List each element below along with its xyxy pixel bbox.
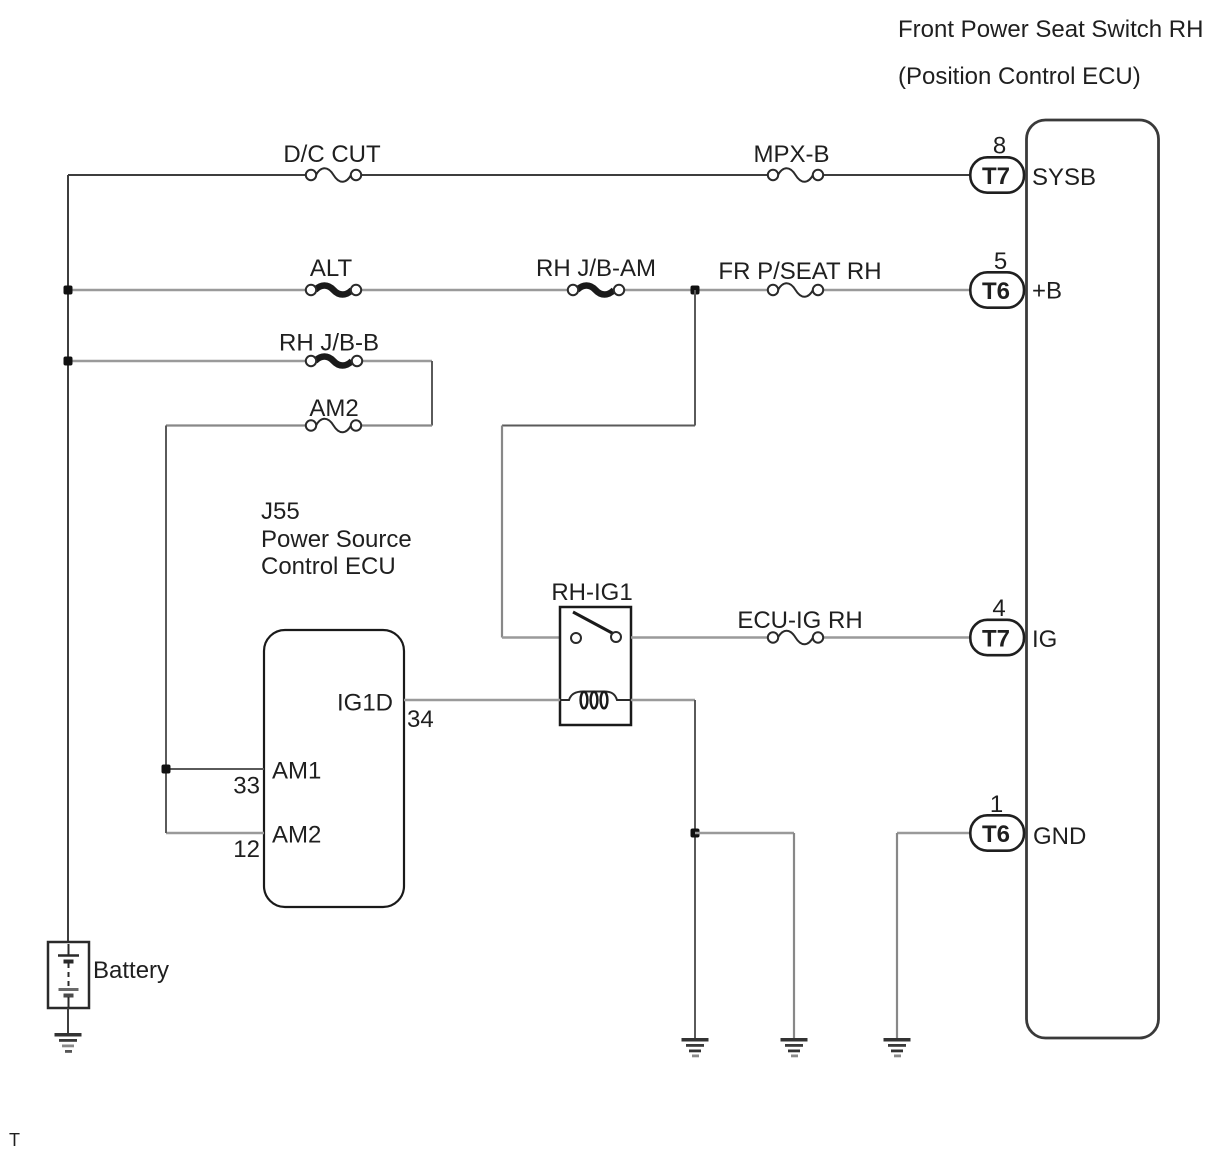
svg-text:ECU-IG RH: ECU-IG RH [737, 607, 862, 634]
svg-text:Battery: Battery [93, 957, 169, 984]
wire: relay switch output y=637.5 to T7 IG [631, 636, 969, 638]
wire: IG1D pin 34 output y=700 from J55 to relay coil [404, 699, 560, 701]
junction node at (695,833) [691, 829, 700, 838]
wire: AM1 pin 33 y=769 from x=166 to J55 [166, 768, 264, 770]
svg-text:AM2: AM2 [272, 822, 321, 849]
svg-text:T6: T6 [982, 278, 1010, 305]
fuse AM2 [306, 419, 361, 433]
ground (battery) [55, 1033, 82, 1053]
ground at x=695 [682, 1038, 709, 1057]
connector terminal T6 pin 1 (GND) [970, 815, 1024, 850]
svg-text:(Position Control ECU): (Position Control ECU) [898, 63, 1141, 90]
fuse D/C CUT [306, 168, 361, 182]
wire: RH J/B-B row y=361 [68, 360, 432, 362]
svg-text:Front Power Seat Switch RH: Front Power Seat Switch RH [898, 16, 1203, 43]
battery internal plates [58, 944, 79, 1008]
svg-text:T7: T7 [982, 626, 1010, 653]
svg-text:MPX-B: MPX-B [753, 141, 829, 168]
svg-text:Control ECU: Control ECU [261, 553, 396, 580]
svg-text:RH J/B-B: RH J/B-B [279, 330, 379, 357]
svg-text:D/C CUT: D/C CUT [283, 141, 381, 168]
wire: vertical x=695 from coil row to ground [694, 700, 696, 1038]
wire: battery to ground [67, 1008, 69, 1033]
fusible link RH J/B-B [306, 356, 362, 367]
svg-text:+B: +B [1032, 278, 1062, 305]
wire: y=833 from x=695 to x=794 [695, 832, 794, 834]
junction node on +B row at x=695 [691, 286, 700, 295]
svg-text:12: 12 [233, 836, 260, 863]
relay coil [560, 692, 631, 709]
fuse FR P/SEAT RH [768, 283, 823, 297]
svg-text:1: 1 [990, 791, 1003, 818]
svg-text:SYSB: SYSB [1032, 164, 1096, 191]
svg-text:GND: GND [1033, 823, 1086, 850]
wire: coil output to x=695 then down [631, 699, 695, 701]
fuse ECU-IG RH [768, 631, 823, 645]
svg-text:IG: IG [1032, 626, 1057, 653]
ground at x=794 [781, 1038, 808, 1057]
ground at x=897 [884, 1038, 911, 1057]
svg-text:5: 5 [994, 248, 1007, 275]
wire: +B row y=290 from left bus to T6 [68, 289, 969, 291]
wire: relay switch input y=637.5 from x=502 to relay box [502, 636, 560, 638]
svg-text:Power Source: Power Source [261, 526, 412, 553]
wire: vertical x=897 down to ground [896, 833, 898, 1038]
J55 Power Source Control ECU box [264, 630, 404, 907]
junction node at (166,769) [162, 765, 171, 774]
svg-text:IG1D: IG1D [337, 690, 393, 717]
wire: vertical x=432 from RH J/B-B row down to AM2 row [431, 361, 433, 426]
svg-text:T7: T7 [982, 163, 1010, 190]
svg-text:T: T [9, 1130, 20, 1150]
fusible link ALT [306, 285, 361, 296]
wire: vertical x=794 down to ground [793, 833, 795, 1038]
svg-text:34: 34 [407, 706, 434, 733]
junction node RH J/B-B at x=68 [64, 357, 73, 366]
wire: AM2 row y=425.5 from x=166 to x=432 [166, 424, 432, 426]
wire: GND pin from T6 to x=897 [897, 832, 969, 834]
wire: vertical x=166 from AM2 fuse row down to AM2 pin [165, 426, 167, 834]
svg-text:4: 4 [992, 595, 1005, 622]
fusible link RH J/B-AM [568, 285, 624, 296]
svg-text:AM2: AM2 [309, 395, 358, 422]
wire: SYSB row y=175 from left bus to T7 [68, 174, 969, 176]
connector terminal T7 pin 8 (SYSB) [970, 157, 1024, 192]
svg-text:ALT: ALT [310, 255, 353, 282]
svg-text:33: 33 [233, 773, 260, 800]
wire: left vertical bus x=68 from SYSB row to battery [67, 175, 69, 942]
wire: AM2 pin 12 y=833 from x=166 to J55 [166, 832, 264, 834]
battery box [48, 942, 89, 1008]
relay RH-IG1 box [560, 607, 631, 725]
junction node on +B row at x=68 [64, 286, 73, 295]
wire: horizontal y=425.5 from x=502 to x=695 [502, 425, 695, 427]
wire: vertical x=502 down to relay switch row [501, 426, 503, 638]
ECU box (Front Power Seat Switch RH / Position Control ECU) [1027, 120, 1159, 1038]
svg-text:RH J/B-AM: RH J/B-AM [536, 255, 656, 282]
svg-text:RH-IG1: RH-IG1 [551, 579, 632, 606]
svg-text:FR P/SEAT RH: FR P/SEAT RH [718, 258, 881, 285]
svg-text:AM1: AM1 [272, 758, 321, 785]
connector terminal T7 pin 4 (IG) [970, 620, 1024, 655]
wire: vertical x=695 from +B junction down to y=425.5 [694, 290, 696, 426]
relay switch contacts and blade [571, 612, 621, 643]
svg-text:8: 8 [993, 133, 1006, 160]
connector terminal T6 pin 5 (+B) [970, 272, 1024, 307]
svg-text:J55: J55 [261, 498, 300, 525]
fuse MPX-B [768, 168, 823, 182]
svg-text:T6: T6 [982, 821, 1010, 848]
